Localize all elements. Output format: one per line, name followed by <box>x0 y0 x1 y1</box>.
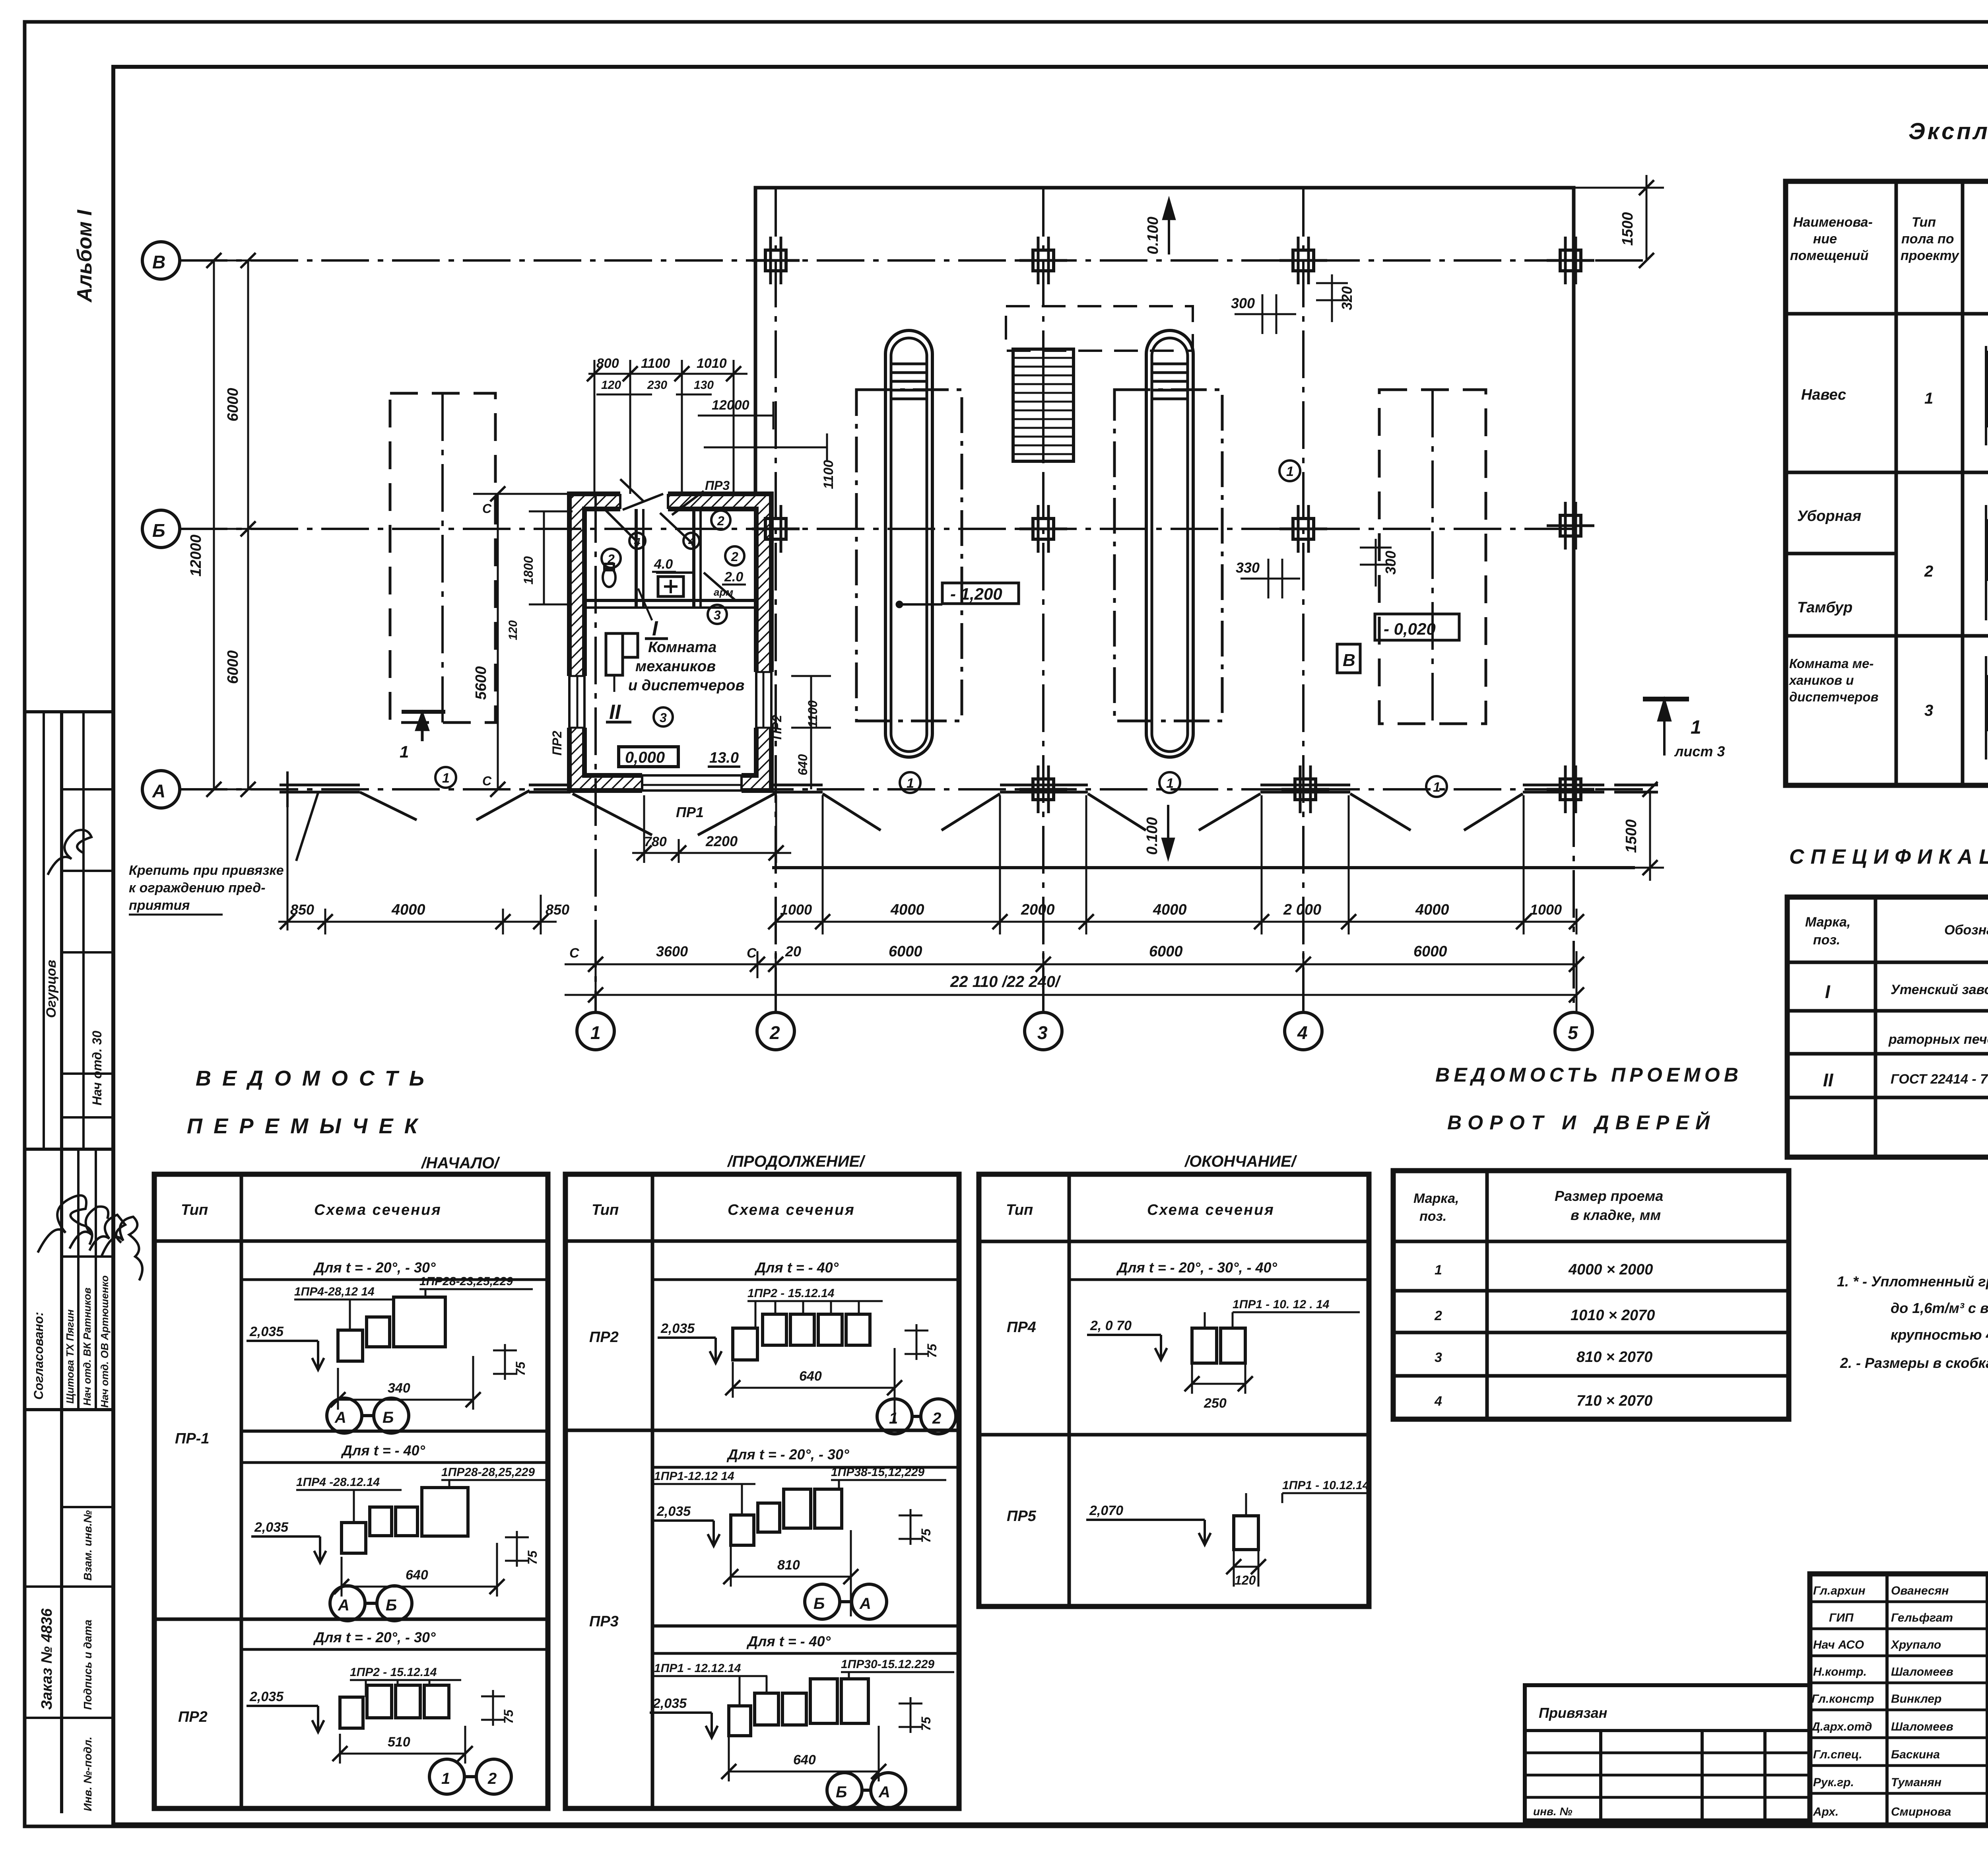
section symbol to sheet 3 <box>1643 699 1725 759</box>
svg-text:250: 250 <box>1204 1396 1227 1411</box>
axis row А <box>142 771 1650 808</box>
svg-text:2: 2 <box>1434 1308 1442 1323</box>
svg-text:С: С <box>569 946 579 961</box>
specification header texts <box>1805 911 1988 948</box>
building window left wall <box>566 16 771 728</box>
svg-text:Для t = - 20°, - 30°: Для t = - 20°, - 30° <box>726 1446 849 1463</box>
svg-text:Б: Б <box>382 1409 394 1426</box>
svg-text:Щитова ТХ Пягин: Щитова ТХ Пягин <box>64 1309 76 1404</box>
svg-text:5: 5 <box>1568 1022 1578 1043</box>
svg-text:1ПР1 - 10.12.14: 1ПР1 - 10.12.14 <box>1282 1479 1369 1492</box>
column symbol Б5 <box>1547 502 1594 550</box>
svg-text:0,000: 0,000 <box>625 749 665 766</box>
svg-text:Для t = - 20°, - 30°: Для t = - 20°, - 30° <box>313 1629 436 1645</box>
svg-text:ВОРОТ И ДВЕРЕЙ: ВОРОТ И ДВЕРЕЙ <box>1447 1111 1710 1134</box>
svg-text:Гл.архин: Гл.архин <box>1813 1584 1866 1597</box>
elevation label -0,020 <box>1375 614 1459 640</box>
svg-text:Арх.: Арх. <box>1813 1805 1839 1818</box>
svg-text:2 000: 2 000 <box>1283 901 1321 918</box>
svg-text:Схема сечения: Схема сечения <box>314 1202 442 1218</box>
svg-text:0.100: 0.100 <box>1145 217 1161 254</box>
svg-text:2: 2 <box>769 1022 780 1043</box>
svg-text:75: 75 <box>501 1709 516 1724</box>
lintel table 2 grid <box>565 1174 959 1808</box>
svg-text:75: 75 <box>925 1343 939 1358</box>
svg-text:Туманян: Туманян <box>1891 1776 1941 1789</box>
svg-text:Взам. инв.№: Взам. инв.№ <box>82 1510 94 1581</box>
svg-text:800: 800 <box>596 356 619 371</box>
svg-text:Нач АСО: Нач АСО <box>1813 1638 1864 1651</box>
svg-text:2: 2 <box>607 552 615 566</box>
svg-text:330: 330 <box>1236 559 1260 576</box>
dashed outline around stair and pit heads <box>1006 306 1193 351</box>
svg-text:1: 1 <box>1286 464 1294 479</box>
svg-text:1ПР28-28,25,229: 1ПР28-28,25,229 <box>441 1466 535 1479</box>
svg-text:13.0: 13.0 <box>709 750 739 766</box>
svg-text:120: 120 <box>601 379 621 392</box>
fence segment bay 4-5 <box>1523 785 1604 792</box>
svg-text:Огурцов: Огурцов <box>44 960 59 1018</box>
specification table grid <box>1787 897 1988 1157</box>
ramp chevron opening 3 <box>823 794 1000 830</box>
svg-text:I: I <box>1825 981 1831 1002</box>
svg-text:Наименова-: Наименова- <box>1793 215 1873 230</box>
building door top wall ПР3 <box>620 491 668 514</box>
position circle 1 pit bay 2 <box>900 772 920 793</box>
svg-text:Альбом I: Альбом I <box>73 209 96 303</box>
notes <box>1837 1273 1988 1371</box>
lintel diagram ПР3 t-40 <box>650 1633 959 1808</box>
svg-text:130: 130 <box>694 379 714 392</box>
svg-text:ПР2: ПР2 <box>178 1709 208 1725</box>
building top dim rows 800 1100 1010 <box>587 356 836 494</box>
fence segment right end <box>1614 785 1658 792</box>
specification row II <box>1823 1070 1988 1090</box>
section mark 1 at left post <box>400 712 445 761</box>
svg-text:3600: 3600 <box>656 943 688 960</box>
svg-text:Б: Б <box>152 520 165 541</box>
svg-text:6000: 6000 <box>889 943 922 960</box>
svg-text:поз.: поз. <box>1813 932 1840 948</box>
svg-text:раторных печей: раторных печей <box>1888 1032 1988 1047</box>
svg-text:75: 75 <box>919 1716 933 1731</box>
svg-text:230: 230 <box>647 379 667 392</box>
svg-text:2,035: 2,035 <box>656 1504 691 1519</box>
svg-text:640: 640 <box>793 1752 816 1768</box>
svg-text:3: 3 <box>1435 1350 1442 1365</box>
binding block Привязан <box>1525 1685 1810 1820</box>
slope arrow 0.100 bottom <box>1144 805 1173 857</box>
svg-text:- 1,200: - 1,200 <box>950 585 1002 603</box>
svg-text:1ПР1-12.12 14: 1ПР1-12.12 14 <box>654 1470 734 1483</box>
note text Крепить <box>129 793 318 915</box>
svg-text:Крепить при привязке: Крепить при привязке <box>129 863 284 878</box>
stair to pits <box>1013 349 1074 461</box>
position circle 1 left bay <box>435 767 456 788</box>
svg-text:4: 4 <box>634 536 641 548</box>
axis row В <box>142 242 1650 279</box>
svg-text:Согласовано:: Согласовано: <box>31 1312 46 1400</box>
svg-text:В: В <box>1343 651 1355 670</box>
svg-text:А: А <box>152 781 165 801</box>
svg-text:3: 3 <box>714 608 721 622</box>
svg-text:крупностью 40-60мм.: крупностью 40-60мм. <box>1891 1327 1988 1343</box>
room label mechanics <box>628 639 744 694</box>
left stamp column: album label <box>73 209 96 303</box>
svg-text:Схема сечения: Схема сечения <box>1147 1202 1275 1218</box>
svg-text:1ПР30-15.12.229: 1ПР30-15.12.229 <box>841 1658 934 1671</box>
svg-text:0.100: 0.100 <box>1144 817 1161 855</box>
svg-text:к ограждению пред-: к ограждению пред- <box>129 880 266 895</box>
lintel diagram ПР3 t-20-30 <box>652 1446 959 1619</box>
svg-text:Марка,: Марка, <box>1805 915 1850 930</box>
svg-text:II: II <box>1823 1070 1834 1090</box>
svg-text:Н.контр.: Н.контр. <box>1813 1665 1867 1678</box>
floor row 1 Навес <box>1801 387 1988 407</box>
building left label ПР2 <box>550 731 564 756</box>
svg-text:А: А <box>334 1409 346 1426</box>
svg-text:- 0,020: - 0,020 <box>1384 620 1436 638</box>
svg-text:механиков: механиков <box>635 658 716 675</box>
table Экспликация header texts <box>1790 214 1988 263</box>
svg-text:300: 300 <box>1231 295 1255 311</box>
svg-text:3: 3 <box>1924 702 1933 719</box>
svg-text:22 110 /22 240/: 22 110 /22 240/ <box>950 973 1061 991</box>
column symbol В2 <box>752 237 800 284</box>
svg-text:2,035: 2,035 <box>660 1321 695 1336</box>
svg-text:Шаломеев: Шаломеев <box>1891 1665 1953 1678</box>
table Экспликация полов title <box>1908 118 1988 144</box>
lintel diagram ПР2 t-40 <box>652 1259 959 1434</box>
dim 1500 bottom right <box>1574 782 1664 881</box>
floor row 3 Комната механиков <box>1788 656 1988 719</box>
svg-text:Винклер: Винклер <box>1891 1692 1941 1705</box>
svg-text:ние: ние <box>1813 231 1837 247</box>
svg-text:Схема сечения: Схема сечения <box>728 1202 855 1218</box>
lintel diagram ПР-1 t-40 <box>241 1442 548 1621</box>
dashed post rectangle right <box>1379 390 1486 724</box>
svg-text:Смирнова: Смирнова <box>1891 1805 1951 1818</box>
svg-text:1ПР2 - 15.12.14: 1ПР2 - 15.12.14 <box>747 1287 835 1300</box>
svg-text:В: В <box>152 252 165 272</box>
svg-text:75: 75 <box>513 1361 528 1376</box>
svg-text:780: 780 <box>644 834 667 849</box>
svg-text:инв. №: инв. № <box>1533 1805 1573 1818</box>
svg-text:ВЕДОМОСТЬ ПРОЕМОВ: ВЕДОМОСТЬ ПРОЕМОВ <box>1435 1064 1738 1086</box>
svg-text:4000: 4000 <box>890 901 924 918</box>
svg-text:ПР2: ПР2 <box>770 715 784 740</box>
svg-text:1ПР28-23,25,229: 1ПР28-23,25,229 <box>419 1275 513 1288</box>
column symbol А4 <box>1281 765 1329 813</box>
svg-text:1: 1 <box>889 1410 898 1427</box>
openings table texts <box>1413 1188 1663 1409</box>
svg-text:12000: 12000 <box>712 398 749 413</box>
svg-text:Нач отд. ОВ Артюшенко: Нач отд. ОВ Артюшенко <box>99 1275 111 1408</box>
svg-text:Гл.спец.: Гл.спец. <box>1813 1748 1862 1761</box>
svg-text:пола по: пола по <box>1901 231 1954 247</box>
equipment mark II <box>606 701 631 724</box>
svg-text:ПЕРЕМЫЧЕК: ПЕРЕМЫЧЕК <box>187 1114 419 1138</box>
building window right wall <box>754 672 774 728</box>
inspection pit capsule 2 <box>1146 330 1193 757</box>
column symbol Б4 <box>1279 505 1327 553</box>
svg-text:проекту: проекту <box>1901 248 1960 263</box>
floor schema row 3 <box>1986 656 1988 759</box>
svg-text:Комната ме-: Комната ме- <box>1789 656 1874 671</box>
svg-text:ПР4: ПР4 <box>1007 1319 1036 1336</box>
svg-text:5600: 5600 <box>473 666 489 700</box>
fence segment left of building <box>529 785 571 792</box>
svg-text:А: А <box>338 1597 349 1614</box>
svg-text:А: А <box>878 1783 890 1801</box>
svg-text:Тамбур: Тамбур <box>1797 599 1852 616</box>
canopy outline <box>755 188 1574 800</box>
dim 1500 top right <box>1574 175 1664 268</box>
svg-text:1: 1 <box>1433 780 1441 795</box>
node B marker <box>1337 644 1360 673</box>
ramp chevron opening 1 <box>360 791 530 820</box>
svg-text:6000: 6000 <box>225 650 241 684</box>
svg-text:4000 × 2000: 4000 × 2000 <box>1568 1261 1653 1278</box>
svg-text:Хрупало: Хрупало <box>1890 1638 1941 1651</box>
svg-text:1800: 1800 <box>521 556 536 585</box>
svg-text:1ПР1 - 10. 12 . 14: 1ПР1 - 10. 12 . 14 <box>1233 1298 1330 1311</box>
svg-text:2: 2 <box>932 1410 941 1427</box>
ramp chevron opening 5 <box>1350 794 1523 830</box>
axis column 4 <box>1285 189 1322 1050</box>
column symbol В3 <box>1019 237 1067 284</box>
svg-text:Размер проема: Размер проема <box>1555 1188 1663 1204</box>
building left dim 5600 <box>473 486 573 797</box>
svg-text:4000: 4000 <box>1153 901 1187 918</box>
svg-text:ПР1: ПР1 <box>676 804 704 820</box>
svg-text:до 1,6т/м³ с втрамбованным: до 1,6т/м³ с втрамбованным в него слоем … <box>1891 1300 1988 1316</box>
svg-text:Для t = - 40°: Для t = - 40° <box>746 1633 831 1649</box>
svg-text:1: 1 <box>1924 390 1933 407</box>
elevation label -1,200 <box>897 583 1019 607</box>
svg-text:1: 1 <box>441 1770 450 1787</box>
bottom dim row 1000 4000 2000 4000 2000 4000 1000 <box>768 795 1584 934</box>
svg-text:арм: арм <box>714 586 733 598</box>
left stamp column grid <box>25 712 113 1813</box>
column symbol Б2 <box>752 505 800 553</box>
svg-text:4.0: 4.0 <box>654 557 673 572</box>
svg-text:6000: 6000 <box>1149 943 1183 960</box>
svg-text:Д.арх.отд: Д.арх.отд <box>1810 1720 1872 1733</box>
guard building walls with hatching <box>569 494 771 791</box>
floor row 2 Уборная Тамбур <box>1797 503 1988 618</box>
svg-text:Б: Б <box>386 1597 397 1614</box>
axis column 1 <box>577 495 614 1050</box>
wash sink <box>658 577 683 596</box>
svg-text:Гельфгат: Гельфгат <box>1891 1611 1953 1624</box>
svg-text:2,035: 2,035 <box>249 1689 284 1704</box>
ramp chevron opening 2 under building <box>573 794 775 835</box>
svg-text:75: 75 <box>525 1550 540 1565</box>
svg-text:640: 640 <box>406 1568 428 1583</box>
fence segment right of building <box>773 785 823 792</box>
svg-text:1: 1 <box>907 776 914 791</box>
svg-text:4000: 4000 <box>391 901 425 918</box>
svg-text:Комната: Комната <box>648 639 716 656</box>
svg-text:ПР5: ПР5 <box>1007 1508 1037 1525</box>
svg-text:1: 1 <box>400 742 409 761</box>
svg-text:2,035: 2,035 <box>254 1520 289 1535</box>
svg-text:С: С <box>482 774 492 788</box>
svg-text:Обозначение: Обозначение <box>1944 923 1988 938</box>
position circle 1 top bay <box>1279 460 1300 481</box>
svg-text:в кладке, мм: в кладке, мм <box>1571 1207 1661 1223</box>
table Экспликация полов grid <box>1786 181 1988 785</box>
svg-text:2,035: 2,035 <box>249 1324 284 1339</box>
svg-text:/ПРОДОЛЖЕНИЕ/: /ПРОДОЛЖЕНИЕ/ <box>727 1153 866 1170</box>
column symbol А5 <box>1547 765 1594 813</box>
svg-text:Уборная: Уборная <box>1797 508 1861 524</box>
svg-text:810 × 2070: 810 × 2070 <box>1576 1349 1652 1366</box>
svg-text:помещений: помещений <box>1790 248 1869 263</box>
svg-text:640: 640 <box>796 754 810 775</box>
slope arrow 0.100 top <box>1145 201 1174 254</box>
svg-text:ГИП: ГИП <box>1829 1611 1854 1624</box>
svg-text:1: 1 <box>1166 776 1174 791</box>
axis column 3 <box>1025 189 1062 1050</box>
svg-text:и диспетчеров: и диспетчеров <box>628 677 744 694</box>
left stamp texts <box>31 960 111 1811</box>
svg-text:/НАЧАЛО/: /НАЧАЛО/ <box>421 1154 500 1172</box>
axis column 2 <box>757 189 794 1050</box>
building right dims 1100 640 ПР2 <box>770 676 831 789</box>
specification row I <box>1825 981 1988 1047</box>
svg-text:1500: 1500 <box>1619 212 1636 246</box>
lintel diagram ПР2 t-20-30 <box>241 1629 548 1794</box>
svg-text:хаников и: хаников и <box>1788 673 1854 688</box>
svg-text:Рук.гр.: Рук.гр. <box>1813 1776 1854 1789</box>
svg-text:1000: 1000 <box>780 901 812 918</box>
svg-text:ПР-1: ПР-1 <box>175 1430 209 1447</box>
building interior partition walls <box>584 509 756 608</box>
small dims 330 near Б4 <box>1236 539 1399 598</box>
svg-text:А: А <box>859 1595 871 1612</box>
svg-text:6000: 6000 <box>225 388 241 422</box>
floor elevation box 0,000 <box>619 747 678 767</box>
svg-text:Для t = - 20°, - 30°, - 40°: Для t = - 20°, - 30°, - 40° <box>1116 1259 1277 1276</box>
svg-text:2: 2 <box>731 550 738 564</box>
title block outer <box>1810 1574 1988 1825</box>
svg-text:120: 120 <box>1235 1573 1256 1587</box>
svg-text:710 × 2070: 710 × 2070 <box>1576 1393 1652 1409</box>
svg-text:Тип: Тип <box>1006 1202 1033 1218</box>
room area 13.0 <box>708 750 740 767</box>
column symbol В4 <box>1279 237 1327 284</box>
svg-text:лист 3: лист 3 <box>1674 743 1725 759</box>
axis row Б <box>142 510 1574 548</box>
svg-text:Тип: Тип <box>1912 215 1936 230</box>
apron front edge <box>772 866 1635 869</box>
svg-text:1010: 1010 <box>697 356 727 371</box>
svg-text:Гл.констр: Гл.констр <box>1811 1692 1874 1705</box>
svg-text:/ОКОНЧАНИЕ/: /ОКОНЧАНИЕ/ <box>1184 1153 1297 1170</box>
svg-text:Утенский завод ла бо-: Утенский завод ла бо- <box>1891 982 1988 997</box>
svg-text:4: 4 <box>1297 1022 1308 1043</box>
svg-text:2: 2 <box>1924 563 1933 580</box>
svg-text:6000: 6000 <box>1413 943 1447 960</box>
svg-text:3: 3 <box>1037 1022 1048 1043</box>
dashed post rectangle left of building <box>390 393 495 723</box>
lintel table 1 grid <box>154 1174 548 1808</box>
small dims 300 near B3 <box>1231 274 1355 334</box>
svg-text:I: I <box>652 617 658 640</box>
column symbol Б3 <box>1019 505 1067 553</box>
lintel table 3 grid <box>979 1174 1369 1606</box>
svg-text:Марка,: Марка, <box>1413 1191 1459 1206</box>
left stamp signature scribbles <box>38 830 142 1280</box>
openings schedule title <box>1435 1064 1738 1134</box>
svg-text:С: С <box>747 946 757 961</box>
ramp chevron opening 4 <box>1088 794 1260 830</box>
svg-text:Тип: Тип <box>181 1202 208 1218</box>
svg-text:Б: Б <box>836 1783 847 1801</box>
svg-text:Баскина: Баскина <box>1891 1748 1940 1761</box>
building bottom dims 780 2200 <box>632 795 791 863</box>
svg-text:Заказ № 4836: Заказ № 4836 <box>39 1608 55 1710</box>
svg-text:1ПР1 - 12.12.14: 1ПР1 - 12.12.14 <box>654 1662 741 1675</box>
column symbol В5 <box>1547 237 1594 284</box>
floor schema row 1 <box>1986 346 1988 445</box>
svg-text:Инв. №-подл.: Инв. №-подл. <box>82 1737 94 1811</box>
position circle 1 pit bay 3 <box>1159 772 1180 793</box>
svg-text:2000: 2000 <box>1021 901 1055 918</box>
bottom dim row 850 4000 850 <box>278 795 569 934</box>
svg-text:640: 640 <box>799 1369 822 1384</box>
svg-text:1010 × 2070: 1010 × 2070 <box>1571 1307 1655 1324</box>
svg-text:ПР3: ПР3 <box>589 1613 619 1630</box>
svg-text:2,070: 2,070 <box>1089 1503 1123 1518</box>
svg-text:II: II <box>609 701 621 724</box>
svg-text:1. * - Уплотненный грунт осно: 1. * - Уплотненный грунт основания приня… <box>1837 1273 1988 1290</box>
equipment mark I <box>638 589 668 640</box>
svg-text:диспетчеров: диспетчеров <box>1789 690 1879 704</box>
svg-text:2: 2 <box>717 514 724 528</box>
svg-text:Тип: Тип <box>592 1202 619 1218</box>
toilet bowl <box>603 564 615 587</box>
svg-text:1100: 1100 <box>641 356 670 371</box>
svg-text:ПР2: ПР2 <box>589 1329 619 1346</box>
svg-text:Для t = - 40°: Для t = - 40° <box>754 1259 839 1276</box>
svg-text:1ПР4 -28.12.14: 1ПР4 -28.12.14 <box>296 1476 380 1489</box>
svg-text:12000: 12000 <box>188 534 204 577</box>
cabinet furniture <box>606 633 638 692</box>
bottom dim row 22 110 /22 240/ <box>565 973 1584 1012</box>
pit dash-dot rectangle at post 3 <box>1114 390 1222 721</box>
svg-text:340: 340 <box>388 1381 410 1396</box>
building label ПР3 leader <box>672 478 730 515</box>
bottom dim row 3600 20 6000 6000 6000 <box>565 943 1584 978</box>
svg-text:1500: 1500 <box>1623 819 1640 853</box>
svg-text:1ПР2 - 15.12.14: 1ПР2 - 15.12.14 <box>350 1666 437 1679</box>
svg-text:ПР3: ПР3 <box>705 478 730 493</box>
fence segment axis A far left <box>280 771 360 807</box>
svg-text:Подпись и дата: Подпись и дата <box>82 1620 94 1710</box>
svg-text:ПР2: ПР2 <box>550 731 564 756</box>
svg-text:Для t = - 20°, - 30°: Для t = - 20°, - 30° <box>313 1259 436 1276</box>
svg-text:20: 20 <box>785 943 801 960</box>
fence segment bay 2-3 <box>1000 785 1088 792</box>
svg-text:1ПР4-28,12 14: 1ПР4-28,12 14 <box>294 1285 375 1298</box>
svg-text:Шаломеев: Шаломеев <box>1891 1720 1953 1733</box>
openings table grid <box>1393 1171 1789 1419</box>
svg-text:1100: 1100 <box>806 700 820 728</box>
svg-text:2,035: 2,035 <box>652 1696 687 1711</box>
